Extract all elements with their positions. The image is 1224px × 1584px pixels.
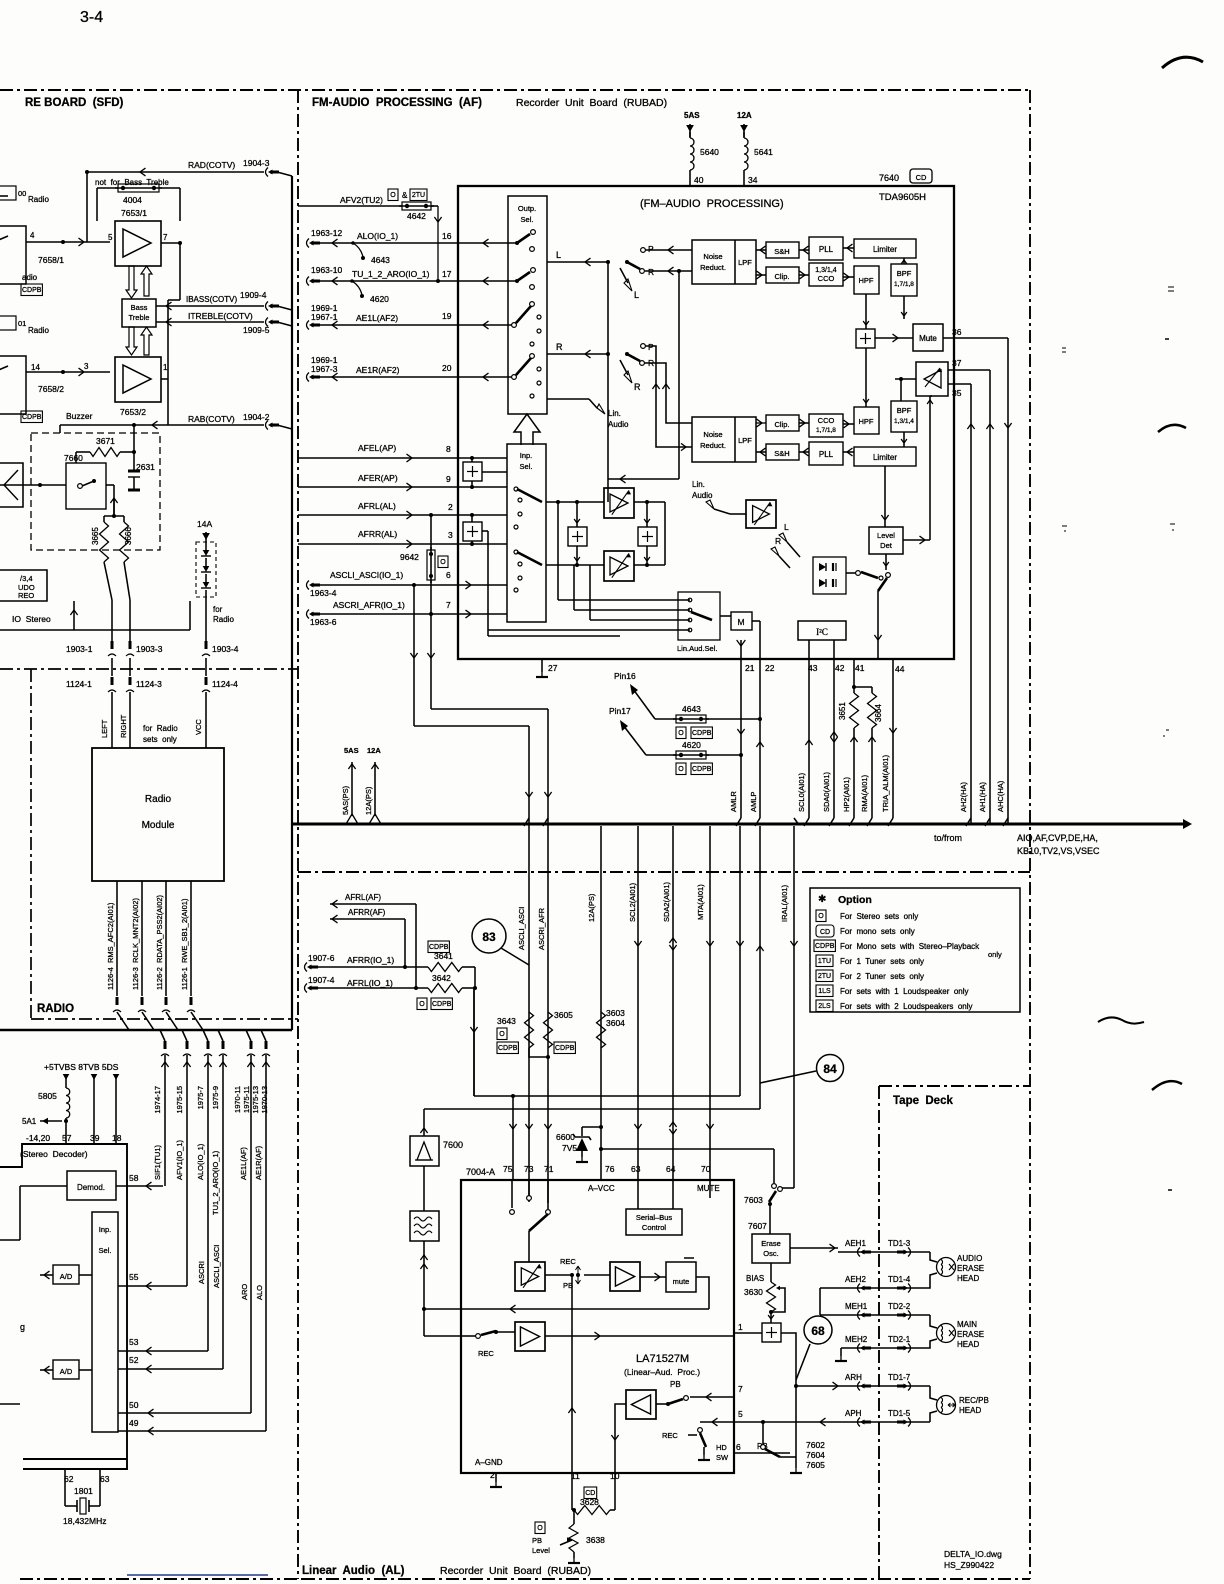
svg-text:1904-3: 1904-3 [243, 158, 270, 168]
svg-text:7603: 7603 [744, 1195, 763, 1205]
svg-text:AFV2(TU2): AFV2(TU2) [340, 195, 383, 205]
svg-text:Noise: Noise [703, 430, 722, 439]
svg-text:KB10,TV2,VS,VSEC: KB10,TV2,VS,VSEC [1017, 846, 1100, 856]
svg-text:1126-4 RMS_AFC2(AI01): 1126-4 RMS_AFC2(AI01) [106, 902, 115, 990]
svg-text:17: 17 [442, 269, 452, 279]
block A/D 2 [53, 1360, 79, 1379]
svg-text:Buzzer: Buzzer [66, 411, 93, 421]
svg-text:1975-13: 1975-13 [251, 1086, 260, 1114]
serial bus legs [637, 1180, 639, 1209]
svg-text:41: 41 [855, 663, 865, 673]
block Limiter upper [854, 239, 916, 258]
wire L switch vertical down [607, 262, 609, 502]
svg-text:AMLR: AMLR [729, 791, 738, 812]
svg-text:+5TVBS 8TVB 5DS: +5TVBS 8TVB 5DS [44, 1062, 119, 1072]
main erase head [930, 1315, 937, 1328]
variable amp lower [604, 551, 634, 581]
block Clip upper [766, 267, 799, 283]
svg-text:to/from: to/from [934, 833, 962, 843]
svg-text:00: 00 [18, 189, 26, 198]
svg-text:for Radio: for Radio [143, 724, 178, 733]
wire amp out to pin 1 [545, 1335, 734, 1337]
svg-text:ASCLI_ASCI: ASCLI_ASCI [212, 1245, 221, 1288]
block HPF upper [854, 266, 879, 294]
svg-text:BIAS: BIAS [746, 1274, 764, 1283]
switch right of detector [846, 572, 856, 574]
svg-text:5805: 5805 [38, 1091, 57, 1101]
wire + box to ARH [781, 1333, 796, 1386]
wire 84 diagonal to AMLP node [760, 1071, 816, 1083]
svg-text:Level: Level [532, 1546, 550, 1555]
svg-text:R: R [556, 342, 563, 352]
wire pin6 into Inp.Sel [458, 584, 507, 586]
svg-text:Audio: Audio [608, 420, 629, 429]
svg-text:2631: 2631 [136, 462, 155, 472]
open arrow L below switch [620, 268, 628, 283]
svg-text:3642: 3642 [432, 973, 451, 983]
svg-text:52: 52 [129, 1355, 139, 1365]
svg-text:MTA(AI01): MTA(AI01) [696, 884, 705, 920]
svg-text:(Stereo Decoder): (Stereo Decoder) [20, 1149, 88, 1159]
svg-text:HEAD: HEAD [957, 1274, 979, 1283]
svg-text:PLL: PLL [819, 245, 834, 254]
block A/D 1 [53, 1265, 79, 1284]
svg-text:IRAL(AI01): IRAL(AI01) [780, 884, 789, 922]
svg-text:O: O [499, 1031, 505, 1038]
block Outp.Sel [508, 196, 547, 414]
svg-text:70: 70 [701, 1164, 711, 1174]
wire +5TVBS with inductor 5805 [63, 1074, 70, 1080]
IC 7640 TDA9605H outline [458, 186, 954, 659]
svg-text:SW: SW [716, 1453, 729, 1462]
svg-text:ITREBLE(COTV): ITREBLE(COTV) [188, 311, 253, 321]
wire ASCRI_AFR vertical to bus and below [547, 709, 549, 1203]
wire pin37 output to bus [985, 818, 990, 826]
svg-text:MAIN: MAIN [957, 1320, 977, 1329]
svg-text:O: O [678, 730, 684, 737]
svg-text:PB: PB [532, 1536, 542, 1545]
wire RMS_AFC2 from radio module [116, 881, 118, 996]
board boundary vertical between SFD/RADIO and AF [297, 90, 299, 1579]
svg-text:3671: 3671 [96, 436, 115, 446]
wire summing1 out [482, 471, 507, 473]
stub 5AS(PS) [351, 762, 353, 816]
svg-text:P: P [648, 244, 654, 254]
svg-text:For 2 Tuner sets only: For 2 Tuner sets only [840, 972, 924, 981]
svg-text:3604: 3604 [606, 1018, 625, 1028]
wire pin8 into Inp.Sel [458, 457, 507, 459]
svg-text:7604: 7604 [806, 1450, 825, 1460]
svg-text:TD1-5: TD1-5 [888, 1409, 911, 1418]
svg-text:BPF: BPF [897, 406, 912, 415]
wires into Lin.Aud.Sel from Inp.Sel [557, 502, 559, 600]
wire vamp upper out [634, 501, 665, 503]
wire 68 to ARH junction [796, 1344, 810, 1380]
svg-text:1801: 1801 [74, 1486, 93, 1496]
svg-text:35: 35 [952, 388, 962, 398]
connector 1126-1 [187, 1010, 195, 1012]
svg-text:14: 14 [31, 363, 40, 372]
svg-text:4643: 4643 [682, 704, 701, 714]
svg-text:3-4: 3-4 [80, 9, 103, 26]
wire pin36 [943, 337, 1008, 339]
svg-text:73: 73 [524, 1164, 534, 1174]
svg-text:Treble: Treble [129, 313, 150, 322]
svg-text:84: 84 [823, 1062, 837, 1076]
wire S&H to NoiseReduct [756, 249, 766, 251]
wire AEH2 to MEH1 link [819, 1288, 821, 1315]
svg-text:7: 7 [163, 233, 168, 242]
svg-text:4620: 4620 [370, 294, 389, 304]
option boxes for 4620 [676, 763, 686, 775]
wire pin44 TRIA_ALM to bus [878, 658, 893, 660]
wire buzzer top entry [133, 425, 135, 452]
block M mono [731, 612, 752, 630]
wire 7600 to filter [423, 1166, 425, 1211]
svg-text:40: 40 [694, 175, 704, 185]
main data bus to/from other boards [292, 823, 1185, 826]
svg-text:SDA0(AI01): SDA0(AI01) [822, 771, 831, 812]
svg-text:Demod.: Demod. [77, 1183, 105, 1192]
svg-text:7605: 7605 [806, 1460, 825, 1470]
svg-text:AE1R(AF): AE1R(AF) [254, 1145, 263, 1180]
svg-text:ASCRI_AFR: ASCRI_AFR [537, 907, 546, 950]
MEH2 ground [840, 1348, 842, 1356]
arrow up into 7660 base [110, 498, 117, 503]
connector 1124-1 [111, 658, 113, 676]
scanner specks right margin [1168, 287, 1174, 291]
svg-text:21: 21 [745, 663, 755, 673]
svg-text:68: 68 [811, 1324, 825, 1338]
svg-text:REC: REC [662, 1431, 678, 1440]
svg-text:Sel.: Sel. [521, 215, 534, 224]
svg-text:71: 71 [544, 1164, 554, 1174]
svg-text:6: 6 [736, 1442, 741, 1452]
wire CCO to HPF [843, 276, 854, 278]
block Level Det [869, 527, 903, 554]
wire pin22 AMLP to bus [759, 659, 761, 818]
wire demod left [20, 1185, 67, 1187]
svg-text:5: 5 [108, 233, 113, 242]
svg-text:TD2-2: TD2-2 [888, 1302, 911, 1311]
variable amp mid (lin audio) [746, 500, 776, 528]
legend 1LS [816, 985, 833, 997]
svg-text:A–VCC: A–VCC [588, 1184, 615, 1193]
Outp.Sel switch contacts 2 [515, 279, 519, 283]
wire 5DS [113, 1074, 120, 1080]
svg-text:58: 58 [129, 1173, 139, 1183]
svg-text:Recorder Unit Board (RUBAD): Recorder Unit Board (RUBAD) [516, 97, 667, 109]
svg-text:3641: 3641 [434, 951, 453, 961]
svg-text:Reduct.: Reduct. [700, 263, 726, 272]
wire RAB down-left to buzzer box [59, 425, 61, 433]
svg-text:CCO: CCO [818, 416, 835, 425]
block S&H upper [766, 242, 799, 258]
wire outputs to right column [664, 502, 666, 565]
svg-text:O: O [537, 1525, 543, 1532]
wire A-VCC to 7603 supply [599, 1147, 603, 1151]
wire RAD(COTV) [87, 171, 264, 173]
wire pin21 vertical inside IC [740, 640, 742, 659]
svg-text:ASCRI_AFR(IO_1): ASCRI_AFR(IO_1) [333, 600, 405, 610]
block HPF lower [854, 407, 879, 434]
component box 7660 buzzer driver [66, 463, 106, 509]
svg-text:&: & [402, 191, 408, 200]
wire BPF up to Limiter [903, 258, 905, 264]
svg-text:SCL0(AI01): SCL0(AI01) [797, 772, 806, 812]
svg-text:44: 44 [895, 664, 905, 674]
svg-text:64: 64 [666, 1164, 676, 1174]
svg-text:Bass: Bass [131, 303, 148, 312]
svg-text:Sel.: Sel. [99, 1246, 112, 1255]
svg-text:REC/PB: REC/PB [959, 1396, 989, 1405]
wire pin77 [424, 1308, 461, 1310]
pin75 contact inside box [511, 1180, 513, 1208]
connector 1124-4 [205, 658, 207, 676]
svg-text:CDPB: CDPB [692, 730, 712, 737]
wire AMLP continuation below bus [759, 826, 761, 1083]
REC/PB selector arrows [576, 1266, 581, 1284]
svg-text:A–GND: A–GND [475, 1458, 503, 1467]
summing mid 1 [568, 527, 587, 546]
IC 7004-A LA71527M outline [461, 1180, 734, 1473]
svg-text:S&H: S&H [774, 449, 789, 458]
wire bias to + box [770, 1312, 772, 1323]
svg-text:ARO: ARO [240, 1284, 249, 1300]
block Lin.Aud.Sel switch [678, 592, 720, 640]
bias feedback arrow [771, 1288, 785, 1312]
wire RAD trunk join [277, 172, 292, 176]
wire Level Det feedback up to head amp [903, 539, 930, 541]
pot wiper arrow [560, 1540, 572, 1545]
left edge wires decoder [0, 1239, 20, 1241]
wire pin35 output to bus [966, 818, 971, 826]
svg-text:ERASE: ERASE [957, 1264, 984, 1273]
svg-text:✱: ✱ [818, 894, 826, 905]
svg-text:2: 2 [490, 1470, 495, 1480]
pin70 MUTE stub [709, 1180, 711, 1198]
svg-text:I²C: I²C [816, 627, 828, 637]
svg-text:For mono sets only: For mono sets only [840, 927, 915, 936]
wire limiter down via BPF [903, 296, 905, 319]
svg-text:12A(PS): 12A(PS) [587, 893, 596, 922]
box Radio Module [92, 748, 224, 881]
svg-text:Osc.: Osc. [763, 1249, 778, 1258]
board boundary bottom (AL) [302, 1578, 1030, 1580]
wire pin9 into summing [458, 486, 507, 488]
svg-text:2TU: 2TU [818, 973, 831, 980]
wire RDATA_PSS2 from radio module [165, 881, 167, 996]
Inp.Sel switch upper [514, 487, 518, 491]
wire 7653/2 out pin1 to RAB [161, 378, 168, 380]
summing input box 1 [463, 462, 482, 481]
svg-text:For 1 Tuner sets only: For 1 Tuner sets only [840, 957, 924, 966]
svg-text:AFEL(AP): AFEL(AP) [358, 443, 396, 453]
wire pin37 [948, 369, 990, 371]
wire AFRL(AL) pin2 [298, 514, 458, 516]
variable amp REC/PB in LA71527M [515, 1262, 545, 1291]
legend 2TU [816, 970, 833, 982]
svg-text:MEH2: MEH2 [845, 1335, 868, 1344]
dashed buzzer enclosure [31, 433, 160, 550]
svg-text:R: R [648, 267, 654, 277]
svg-text:TD1-3: TD1-3 [888, 1239, 911, 1248]
svg-text:3651: 3651 [838, 702, 847, 720]
svg-text:CD: CD [916, 173, 927, 182]
wire SDA2 down to pin64 [672, 826, 674, 1180]
svg-text:Lin.: Lin. [692, 480, 705, 489]
wire HPF down to plus [865, 294, 867, 329]
wire AFEL(AP) pin8 [298, 457, 458, 459]
horizontal wire AMLR to pin75 node [474, 1095, 740, 1097]
block CCO 1,3/1,4 upper [809, 263, 843, 286]
wire Inp.Sel out upper [546, 501, 604, 503]
svg-text:MUTE: MUTE [697, 1184, 720, 1193]
connector 1904-2 [266, 421, 269, 430]
wire junction to 3665/3666 [104, 515, 124, 517]
circle reference 84 [817, 1055, 844, 1082]
wire left edge component top [0, 195, 8, 197]
wire AEH2 segment [820, 1273, 937, 1288]
wire return from lower NR leftward [608, 478, 679, 480]
svg-text:AEH2: AEH2 [845, 1275, 866, 1284]
board boundary right vertical [1029, 90, 1031, 1579]
svg-text:Clip.: Clip. [774, 420, 789, 429]
svg-text:76: 76 [605, 1164, 615, 1174]
svg-text:5A1: 5A1 [22, 1117, 37, 1126]
svg-text:sets only: sets only [143, 735, 177, 744]
resistor 3664 [868, 693, 877, 728]
svg-text:AFRL(AF): AFRL(AF) [345, 893, 381, 902]
wire Outp.Sel lin audio out [547, 398, 589, 400]
svg-text:A/D: A/D [60, 1367, 73, 1376]
svg-text:Level: Level [877, 531, 895, 540]
svg-text:For sets with 1 Loudspeake: For sets with 1 Loudspeaker only [840, 987, 969, 996]
svg-text:TU_1_2_ARO(IO_1): TU_1_2_ARO(IO_1) [352, 269, 430, 279]
option CD box under pin11 [584, 1487, 597, 1499]
svg-text:CDPB: CDPB [22, 414, 42, 421]
svg-text:7658/2: 7658/2 [38, 384, 64, 394]
svg-text:75: 75 [503, 1164, 513, 1174]
wire 7660 left connection [0, 484, 66, 486]
wire playback path to pin10 [615, 1404, 626, 1473]
wire 3671 left to 7660 [76, 451, 90, 453]
wire branch up from pin4 wire to RAD line [86, 172, 88, 242]
connector 1124-3 [129, 658, 131, 676]
box Bass Treble [122, 299, 156, 327]
blue pen underline [127, 1574, 268, 1576]
wire AMLR continuation below bus [739, 826, 741, 1096]
svg-text:P: P [648, 342, 654, 352]
op-amp 7653/2 [115, 357, 161, 402]
svg-text:1,7/1,8: 1,7/1,8 [816, 427, 836, 434]
connector 1975-9 [219, 1054, 227, 1056]
wires from trunk to decoder connectors [160, 1030, 165, 1041]
svg-text:4643: 4643 [371, 255, 390, 265]
svg-text:IO Stereo: IO Stereo [12, 614, 51, 624]
svg-text:1124-4: 1124-4 [212, 679, 238, 689]
wire 8TVB [91, 1074, 98, 1080]
svg-text:1907-6: 1907-6 [308, 953, 335, 963]
svg-text:7658/1: 7658/1 [38, 255, 64, 265]
op-amp 7653/1 [115, 221, 161, 266]
wire pin79 [424, 1335, 461, 1337]
svg-text:adio: adio [22, 273, 38, 282]
svg-text:Inp.: Inp. [99, 1225, 112, 1234]
inductor 5640 [689, 132, 691, 138]
board boundary bottom left [20, 1578, 302, 1580]
wire pin1 to summing + box [734, 1332, 762, 1334]
summing + box bias [762, 1323, 781, 1342]
wire RAB(COTV) [60, 424, 264, 426]
inductor 5641 [743, 132, 745, 138]
rec/pb head [930, 1386, 937, 1400]
Outp.Sel switch contacts 3 [512, 323, 517, 328]
svg-text:1963-4: 1963-4 [310, 588, 337, 598]
svg-text:1904-2: 1904-2 [243, 412, 270, 422]
wire VCC into radio module [205, 692, 207, 748]
svg-text:/3,4: /3,4 [20, 574, 33, 583]
legend 2LS [816, 1000, 833, 1012]
svg-text:REO: REO [18, 591, 34, 600]
svg-text:14A: 14A [197, 519, 212, 529]
switch R to P/R [627, 354, 640, 361]
svg-text:01: 01 [18, 319, 26, 328]
svg-text:RE BOARD (SFD): RE BOARD (SFD) [25, 97, 124, 109]
svg-text:TU1_2_ARO(IO_1): TU1_2_ARO(IO_1) [211, 1150, 220, 1215]
RADIO board boundary [30, 669, 32, 1019]
svg-text:Erase: Erase [761, 1239, 781, 1248]
variable amp upper [604, 488, 634, 518]
svg-text:AIO,AF,CVP,DE,HA,: AIO,AF,CVP,DE,HA, [1017, 833, 1098, 843]
svg-text:TD2-1: TD2-1 [888, 1335, 911, 1344]
trunk feed diagonals from 1126 connectors [117, 1012, 129, 1030]
block Inp.Sel [507, 444, 546, 622]
svg-text:1126-1 RWE_SB1_2(AI01): 1126-1 RWE_SB1_2(AI01) [180, 898, 189, 990]
svg-text:APH: APH [845, 1409, 862, 1418]
svg-text:Limiter: Limiter [873, 453, 897, 462]
svg-text:SIF1(TU1): SIF1(TU1) [153, 1144, 162, 1180]
mute block [666, 1262, 696, 1292]
svg-text:1909-5: 1909-5 [243, 325, 270, 335]
svg-text:Option: Option [838, 894, 872, 906]
svg-text:TRIA_ALM(AI01): TRIA_ALM(AI01) [881, 754, 890, 812]
svg-text:L: L [784, 522, 789, 532]
svg-text:not for Bass Treble: not for Bass Treble [95, 178, 169, 187]
svg-text:49: 49 [129, 1418, 139, 1428]
svg-text:ALO(IO_1): ALO(IO_1) [196, 1143, 205, 1180]
wire M to pin22 [752, 620, 760, 622]
wire pin16 to Outp.Sel [458, 242, 517, 244]
svg-text:39: 39 [90, 1133, 100, 1143]
legend CDPB [814, 940, 835, 952]
svg-text:Control: Control [642, 1223, 667, 1232]
wire P lower to NR lower [645, 346, 692, 447]
svg-text:for: for [213, 605, 223, 614]
svg-text:4642: 4642 [407, 211, 426, 221]
svg-text:LA71527M: LA71527M [636, 1353, 689, 1365]
svg-text:7607: 7607 [748, 1221, 767, 1231]
legend CD [816, 925, 834, 937]
svg-text:RAB(COTV): RAB(COTV) [188, 414, 235, 424]
svg-text:ASCLI_ASCI(IO_1): ASCLI_ASCI(IO_1) [330, 570, 403, 580]
svg-text:9: 9 [446, 474, 451, 484]
wire R-channel down to lower NR [678, 271, 680, 479]
connector 1903-3 [126, 654, 134, 656]
summing node box upper [856, 329, 875, 348]
wire 7603 down to erase osc [769, 1204, 771, 1234]
svg-text:CDPB: CDPB [692, 766, 712, 773]
